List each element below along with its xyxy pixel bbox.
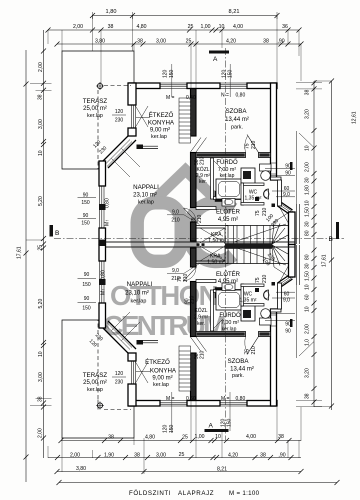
room labels top unit	[83, 98, 262, 244]
svg-text:23,10 m²: 23,10 m²	[133, 193, 157, 199]
svg-text:2,00: 2,00	[304, 162, 310, 172]
svg-text:90: 90	[84, 272, 90, 278]
svg-text:ker.lap: ker.lap	[87, 387, 103, 393]
svg-text:4,80: 4,80	[136, 24, 146, 30]
door 90/210 kozl swing	[184, 208, 197, 222]
svg-text:150: 150	[228, 69, 234, 78]
svg-text:25: 25	[182, 435, 188, 441]
svg-text:1,35 m²: 1,35 m²	[245, 196, 262, 202]
svg-text:9,00 m²: 9,00 m²	[152, 376, 172, 382]
svg-text:A: A	[209, 423, 214, 430]
interior wall etkezo-szoba / nappali-kozl	[191, 89, 197, 137]
svg-text:10: 10	[304, 200, 310, 206]
bottom extension lines	[48, 400, 301, 474]
svg-text:ker.lap: ker.lap	[222, 327, 237, 333]
svg-text:9,0: 9,0	[283, 298, 290, 304]
svg-text:1,00: 1,00	[194, 434, 204, 440]
svg-text:1,50 m²: 1,50 m²	[208, 238, 226, 244]
svg-text:M↑: M↑	[105, 219, 111, 226]
svg-text:9,00 m²: 9,00 m²	[150, 128, 170, 134]
svg-text:2,00: 2,00	[70, 453, 80, 459]
svg-text:NAPPALI: NAPPALI	[127, 281, 153, 288]
svg-text:M =: M =	[166, 95, 175, 101]
furdo south wall	[196, 207, 216, 210]
svg-text:M↑: M↑	[101, 288, 107, 295]
svg-text:38: 38	[38, 396, 44, 402]
north wall west segment	[129, 83, 160, 89]
svg-text:10: 10	[219, 24, 225, 30]
svg-text:5,20: 5,20	[38, 299, 44, 309]
left chain rotated labels	[17, 62, 45, 438]
dim leader 60-90	[272, 191, 295, 197]
wc room walls	[241, 183, 264, 186]
svg-text:FÜRDŐ: FÜRDŐ	[216, 159, 238, 166]
svg-text:2,00: 2,00	[38, 428, 44, 438]
stairs treads	[234, 226, 271, 245]
svg-text:1,0: 1,0	[304, 339, 310, 346]
kra door swing	[200, 228, 225, 243]
svg-text:KONYHA: KONYHA	[150, 368, 177, 375]
svg-text:90: 90	[285, 171, 291, 177]
svg-text:120: 120	[115, 371, 124, 377]
svg-text:210: 210	[200, 350, 206, 359]
section marker B right	[336, 222, 339, 239]
svg-text:38: 38	[278, 434, 284, 440]
section line B dashed	[54, 238, 344, 240]
svg-text:2,9 m²: 2,9 m²	[194, 315, 209, 321]
szoba door swing	[247, 135, 259, 153]
svg-text:25: 25	[179, 452, 185, 458]
svg-text:ker.lap: ker.lap	[87, 113, 103, 119]
svg-text:3,80: 3,80	[95, 39, 105, 45]
room labels bottom unit	[83, 254, 257, 394]
east wall szoba	[271, 83, 277, 180]
svg-text:13,44 m²: 13,44 m²	[225, 117, 249, 123]
svg-text:38: 38	[263, 39, 269, 45]
svg-text:ker.lap: ker.lap	[151, 134, 167, 140]
svg-text:90: 90	[285, 164, 291, 170]
svg-text:1,50: 1,50	[304, 271, 310, 281]
watermark O glyph	[137, 203, 181, 261]
svg-text:4,20: 4,20	[226, 39, 236, 45]
top extension lines	[48, 16, 301, 89]
left dim chains	[25, 50, 27, 482]
terasz roof dashed edge vertical	[97, 90, 99, 169]
window etkezo north 120/150	[160, 83, 187, 89]
svg-text:ker.: ker.	[199, 179, 207, 185]
svg-text:3,00: 3,00	[156, 453, 166, 459]
dim leader 90-90	[265, 131, 297, 204]
svg-text:38: 38	[137, 39, 143, 45]
section marker A bottom	[205, 429, 229, 432]
svg-text:B: B	[329, 236, 333, 243]
svg-text:10: 10	[38, 351, 44, 357]
svg-text:ELŐTÉR: ELŐTÉR	[216, 209, 241, 216]
top dim line 3	[57, 43, 301, 45]
nappali wall lower	[99, 228, 106, 244]
svg-text:38: 38	[134, 453, 140, 459]
svg-text:210: 210	[251, 346, 257, 355]
svg-text:230: 230	[115, 380, 124, 386]
svg-text:0,80: 0,80	[105, 198, 111, 208]
section marker B left	[50, 225, 54, 237]
right dim chains	[313, 81, 315, 407]
svg-text:3,00: 3,00	[156, 39, 166, 45]
svg-text:2,00: 2,00	[73, 24, 83, 30]
terasz roof dashed edge bottom	[98, 400, 131, 410]
stairs arrow line	[234, 224, 286, 242]
north wall east segment	[247, 83, 277, 89]
top dim line 2	[48, 29, 299, 31]
svg-text:210: 210	[200, 156, 206, 165]
svg-text:KÖZL: KÖZL	[194, 307, 207, 314]
bottom dim line 2	[48, 457, 301, 459]
svg-text:17,61: 17,61	[322, 254, 328, 267]
svg-text:38: 38	[304, 393, 310, 399]
nappali window1 90/150	[100, 186, 105, 204]
kitchen counter hatch	[179, 98, 191, 143]
svg-text:FÖLDSZINTI ALAPRAJZ: FÖLDSZINTI ALAPRAJZ	[129, 490, 214, 497]
svg-text:1,50 m²: 1,50 m²	[207, 260, 225, 266]
wall nappali-kozl lower with door	[191, 153, 197, 208]
window szoba north 120/150	[220, 83, 247, 89]
svg-text:23,10 m²: 23,10 m²	[125, 291, 149, 297]
svg-text:0,60: 0,60	[186, 396, 196, 402]
svg-text:150: 150	[227, 418, 233, 427]
svg-text:1,50: 1,50	[304, 207, 310, 217]
svg-text:210: 210	[262, 274, 268, 283]
entry walkway east	[297, 204, 300, 244]
svg-text:ÉTKEZŐ: ÉTKEZŐ	[149, 112, 174, 119]
svg-text:ker.lap: ker.lap	[153, 382, 169, 388]
svg-text:4,00: 4,00	[233, 24, 243, 30]
svg-text:25: 25	[38, 245, 44, 251]
nappali west wall corner	[99, 161, 106, 186]
terasz roof dashed edge top	[104, 85, 131, 87]
svg-text:75: 75	[245, 143, 251, 149]
svg-text:150: 150	[82, 282, 91, 288]
ne corner dim leader	[299, 133, 314, 148]
svg-text:1,00: 1,00	[200, 24, 210, 30]
svg-text:2,00: 2,00	[38, 62, 44, 72]
svg-text:1,90: 1,90	[104, 453, 114, 459]
svg-text:0,80: 0,80	[236, 93, 246, 99]
svg-text:KÖZL: KÖZL	[196, 166, 209, 173]
nappali pillar	[99, 204, 106, 210]
svg-text:10: 10	[304, 145, 310, 151]
kozl-furdo wall	[211, 158, 214, 199]
svg-text:210: 210	[189, 295, 195, 304]
svg-text:75: 75	[255, 277, 261, 283]
svg-text:7,00 m²: 7,00 m²	[221, 320, 239, 326]
bottom dim line 3	[57, 471, 301, 473]
west window 120/230	[132, 105, 136, 128]
svg-text:38: 38	[260, 453, 266, 459]
svg-text:3,20: 3,20	[304, 109, 310, 119]
svg-text:TERASZ: TERASZ	[83, 372, 108, 379]
svg-text:38: 38	[108, 24, 114, 30]
svg-text:25: 25	[188, 24, 194, 30]
west wall etkezo upper	[128, 83, 136, 105]
svg-text:,90: ,90	[278, 453, 285, 459]
svg-text:4,20: 4,20	[228, 453, 238, 459]
terasz slab outline	[62, 51, 134, 169]
chamfer nw glazed door 120/230	[102, 136, 136, 168]
svg-text:,90: ,90	[277, 39, 284, 45]
svg-text:30: 30	[304, 177, 310, 183]
svg-text:150: 150	[82, 306, 91, 312]
svg-text:13,44 m²: 13,44 m²	[230, 367, 254, 373]
svg-text:90: 90	[285, 329, 291, 335]
svg-text:120: 120	[163, 424, 169, 433]
svg-text:120: 120	[115, 109, 124, 115]
svg-text:5,20: 5,20	[38, 196, 44, 206]
rotated labels	[88, 64, 281, 433]
etkezo south stub wall	[137, 145, 144, 150]
svg-text:3,00: 3,00	[38, 372, 44, 382]
door etkezo-kozl swing	[191, 138, 207, 153]
bathtub	[216, 179, 242, 199]
svg-text:4,95 m²: 4,95 m²	[218, 279, 238, 285]
svg-text:1,80: 1,80	[304, 185, 310, 195]
party wall	[106, 242, 296, 249]
bottom dim line 1	[61, 440, 301, 442]
svg-text:30: 30	[304, 221, 310, 227]
svg-text:N =: N =	[221, 93, 229, 99]
stair east wall	[289, 212, 296, 245]
svg-text:150: 150	[81, 200, 90, 206]
terasz column top	[97, 83, 102, 88]
window swing lines	[136, 106, 151, 127]
svg-text:4,95 m²: 4,95 m²	[218, 217, 238, 223]
svg-text:B: B	[55, 230, 59, 237]
entry chamfer wall stub	[278, 203, 293, 214]
entry chamfer glazing	[281, 205, 293, 213]
svg-text:park.: park.	[231, 125, 243, 131]
entry door swing	[274, 208, 291, 226]
svg-text:M =: M =	[166, 396, 175, 402]
svg-text:210: 210	[171, 218, 180, 224]
svg-text:ker.lap: ker.lap	[131, 299, 147, 305]
svg-text:210: 210	[183, 273, 189, 282]
svg-text:3,80: 3,80	[76, 466, 86, 472]
svg-text:10: 10	[38, 150, 44, 156]
wc washbasin	[264, 189, 269, 199]
svg-text:210: 210	[262, 207, 268, 216]
north wall mid segment	[187, 83, 220, 89]
svg-text:38: 38	[108, 435, 114, 441]
watermark roof chevron	[152, 170, 219, 203]
svg-text:120: 120	[163, 69, 169, 78]
svg-text:150: 150	[81, 220, 90, 226]
svg-text:M = 1:100: M = 1:100	[229, 490, 260, 497]
stairs fan	[272, 222, 288, 244]
svg-text:25,00 m²: 25,00 m²	[83, 106, 107, 112]
svg-text:TERASZ: TERASZ	[83, 98, 108, 105]
svg-text:KONYHA: KONYHA	[148, 120, 175, 127]
svg-text:210: 210	[251, 140, 257, 149]
svg-text:210: 210	[197, 214, 203, 223]
svg-text:ker.: ker.	[197, 321, 205, 327]
svg-text:10: 10	[304, 284, 310, 290]
svg-text:30: 30	[304, 263, 310, 269]
svg-text:36: 36	[282, 24, 288, 30]
svg-text:ker.lap: ker.lap	[220, 173, 235, 179]
bottom dim line 4	[59, 482, 337, 484]
svg-text:0,40: 0,40	[186, 95, 196, 101]
east wall window 90/90 gap	[271, 163, 277, 174]
terasz column bottom	[97, 403, 102, 408]
svg-text:ÉTKEZŐ: ÉTKEZŐ	[145, 359, 170, 366]
svg-text:SZOBA: SZOBA	[226, 108, 248, 115]
entry black post	[272, 204, 276, 208]
right chain rotated labels	[304, 89, 357, 399]
watermark C glyph	[188, 202, 233, 261]
svg-text:17,61: 17,61	[17, 246, 23, 259]
svg-text:9,0: 9,0	[283, 192, 290, 198]
washbasin furdo	[222, 199, 235, 207]
svg-text:2,00: 2,00	[304, 324, 310, 334]
svg-text:ker.lap: ker.lap	[138, 200, 154, 206]
svg-text:1,35 m²: 1,35 m²	[240, 298, 257, 304]
west wall block below window	[128, 128, 136, 136]
watermark Otthon Centrum logo	[103, 170, 233, 341]
svg-text:4,80: 4,80	[145, 435, 155, 441]
svg-text:75: 75	[245, 349, 251, 355]
west wall party junction poché	[99, 240, 105, 246]
top dim line 1	[93, 15, 278, 17]
section marker A top	[209, 51, 229, 54]
east recess wall	[271, 177, 282, 180]
svg-text:10: 10	[304, 306, 310, 312]
svg-text:1,80: 1,80	[106, 9, 117, 15]
svg-text:3,00: 3,00	[38, 119, 44, 129]
kra closet walls	[196, 226, 228, 245]
svg-text:12,61: 12,61	[352, 111, 358, 124]
svg-text:8,21: 8,21	[217, 467, 227, 473]
washing machine	[241, 168, 255, 185]
svg-text:25,00 m²: 25,00 m²	[83, 380, 107, 386]
svg-text:75: 75	[255, 210, 261, 216]
svg-text:0,80: 0,80	[236, 396, 246, 402]
svg-text:230: 230	[115, 118, 124, 124]
svg-text:25: 25	[186, 39, 192, 45]
szoba south wall	[196, 153, 246, 158]
svg-text:ELŐTÉR: ELŐTÉR	[216, 271, 241, 278]
svg-text:A: A	[213, 56, 218, 63]
svg-text:SZOBA: SZOBA	[228, 358, 250, 365]
svg-text:3,20: 3,20	[304, 368, 310, 378]
svg-text:90: 90	[84, 296, 90, 302]
svg-text:80: 80	[304, 254, 310, 260]
svg-text:8,21: 8,21	[229, 9, 240, 15]
svg-text:80: 80	[304, 230, 310, 236]
svg-text:90: 90	[285, 322, 291, 328]
nappali window2 90/150	[100, 210, 105, 228]
svg-text:M =: M =	[221, 396, 230, 402]
svg-text:park.: park.	[232, 373, 244, 379]
svg-text:10: 10	[215, 434, 221, 440]
svg-text:0,80: 0,80	[101, 270, 107, 280]
toilet	[260, 164, 272, 171]
svg-text:FÜRDŐ: FÜRDŐ	[219, 312, 241, 319]
entry porch post	[290, 162, 293, 170]
small dim labels in plan	[78, 93, 291, 403]
svg-text:NAPPALI: NAPPALI	[133, 184, 159, 191]
svg-text:38: 38	[304, 89, 310, 95]
svg-text:38: 38	[38, 94, 44, 100]
section line A dashed	[225, 48, 227, 440]
svg-text:60: 60	[304, 294, 310, 300]
svg-text:4,00: 4,00	[246, 434, 256, 440]
